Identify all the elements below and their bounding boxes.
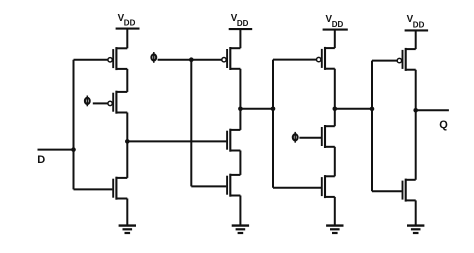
wire node Z to stage 4 input — [335, 108, 372, 110]
wire M7 drain to node Z — [334, 69, 336, 127]
pmos M2 (gate phi) — [107, 102, 109, 104]
wire Q output — [416, 109, 449, 111]
phi label stage 2 — [151, 54, 156, 60]
wire phi rail stage 2 — [190, 60, 192, 187]
wire M1 drain to M2 source — [126, 69, 128, 92]
wire M10 drain to node Q — [415, 70, 417, 180]
wire phi to M4 gate — [158, 59, 222, 61]
pmos M7 (gate Y) — [273, 59, 317, 61]
wire input rail stage 1 — [73, 60, 75, 190]
wire node Y to stage 3 input — [240, 108, 273, 110]
wire node X1 to M5 gate — [127, 140, 226, 142]
node Z junction — [333, 107, 338, 112]
node D junction — [71, 147, 76, 152]
wire M9 source to ground — [334, 197, 336, 225]
svg-text:DD: DD — [124, 18, 136, 27]
nmos M3 (gate D) — [74, 188, 113, 190]
ground stage 1 — [119, 224, 136, 226]
wire M8 source to M9 drain — [334, 147, 336, 177]
wire VDD to M10 source — [415, 30, 417, 49]
svg-text:DD: DD — [237, 19, 249, 28]
wire M3 source to ground — [126, 199, 128, 225]
node X1 junction — [125, 139, 130, 144]
svg-text:Q: Q — [439, 119, 448, 131]
pmos M4 (gate phi) — [221, 59, 223, 61]
svg-text:DD: DD — [413, 21, 425, 30]
node stage 3 input junction — [271, 107, 276, 112]
wire input rail stage 3 — [272, 60, 274, 188]
wire M4 drain to node Y — [239, 69, 241, 130]
wire M11 source to ground — [415, 200, 417, 224]
wire M6 source to ground — [239, 196, 241, 225]
wire VDD to M4 source — [239, 29, 241, 48]
wire phi to M2 gate — [93, 102, 108, 104]
svg-text:DD: DD — [332, 20, 344, 29]
node Q junction — [413, 108, 418, 113]
pmos M1 (gate D) — [74, 59, 109, 61]
ground stage 3 — [326, 224, 343, 226]
phi label stage 1 — [85, 98, 90, 104]
wire VDD to M7 source — [334, 30, 336, 48]
ground stage 2 — [232, 224, 249, 226]
node Y junction — [238, 107, 243, 112]
wire M2 drain to M3 drain — [126, 113, 128, 178]
ground stage 4 — [407, 224, 424, 226]
nmos M5 (gate X1) — [225, 140, 227, 142]
node stage 4 input junction — [370, 107, 375, 112]
nmos M11 (gate Z) — [372, 190, 402, 192]
nmos M6 (gate phi) — [191, 185, 226, 187]
phi label stage 3 — [293, 134, 298, 140]
wire phi to M8 gate — [299, 137, 321, 139]
wire input rail stage 4 — [371, 61, 373, 192]
wire VDD to M1 source — [126, 29, 128, 49]
nmos M8 (gate phi) — [320, 137, 322, 139]
pmos M10 (gate Z) — [372, 60, 397, 62]
nmos M9 (gate Y) — [273, 187, 321, 189]
wire D input — [38, 149, 74, 151]
svg-text:D: D — [37, 154, 45, 166]
node phi rail junction — [189, 57, 194, 62]
wire M5 source to M6 drain — [239, 151, 241, 175]
